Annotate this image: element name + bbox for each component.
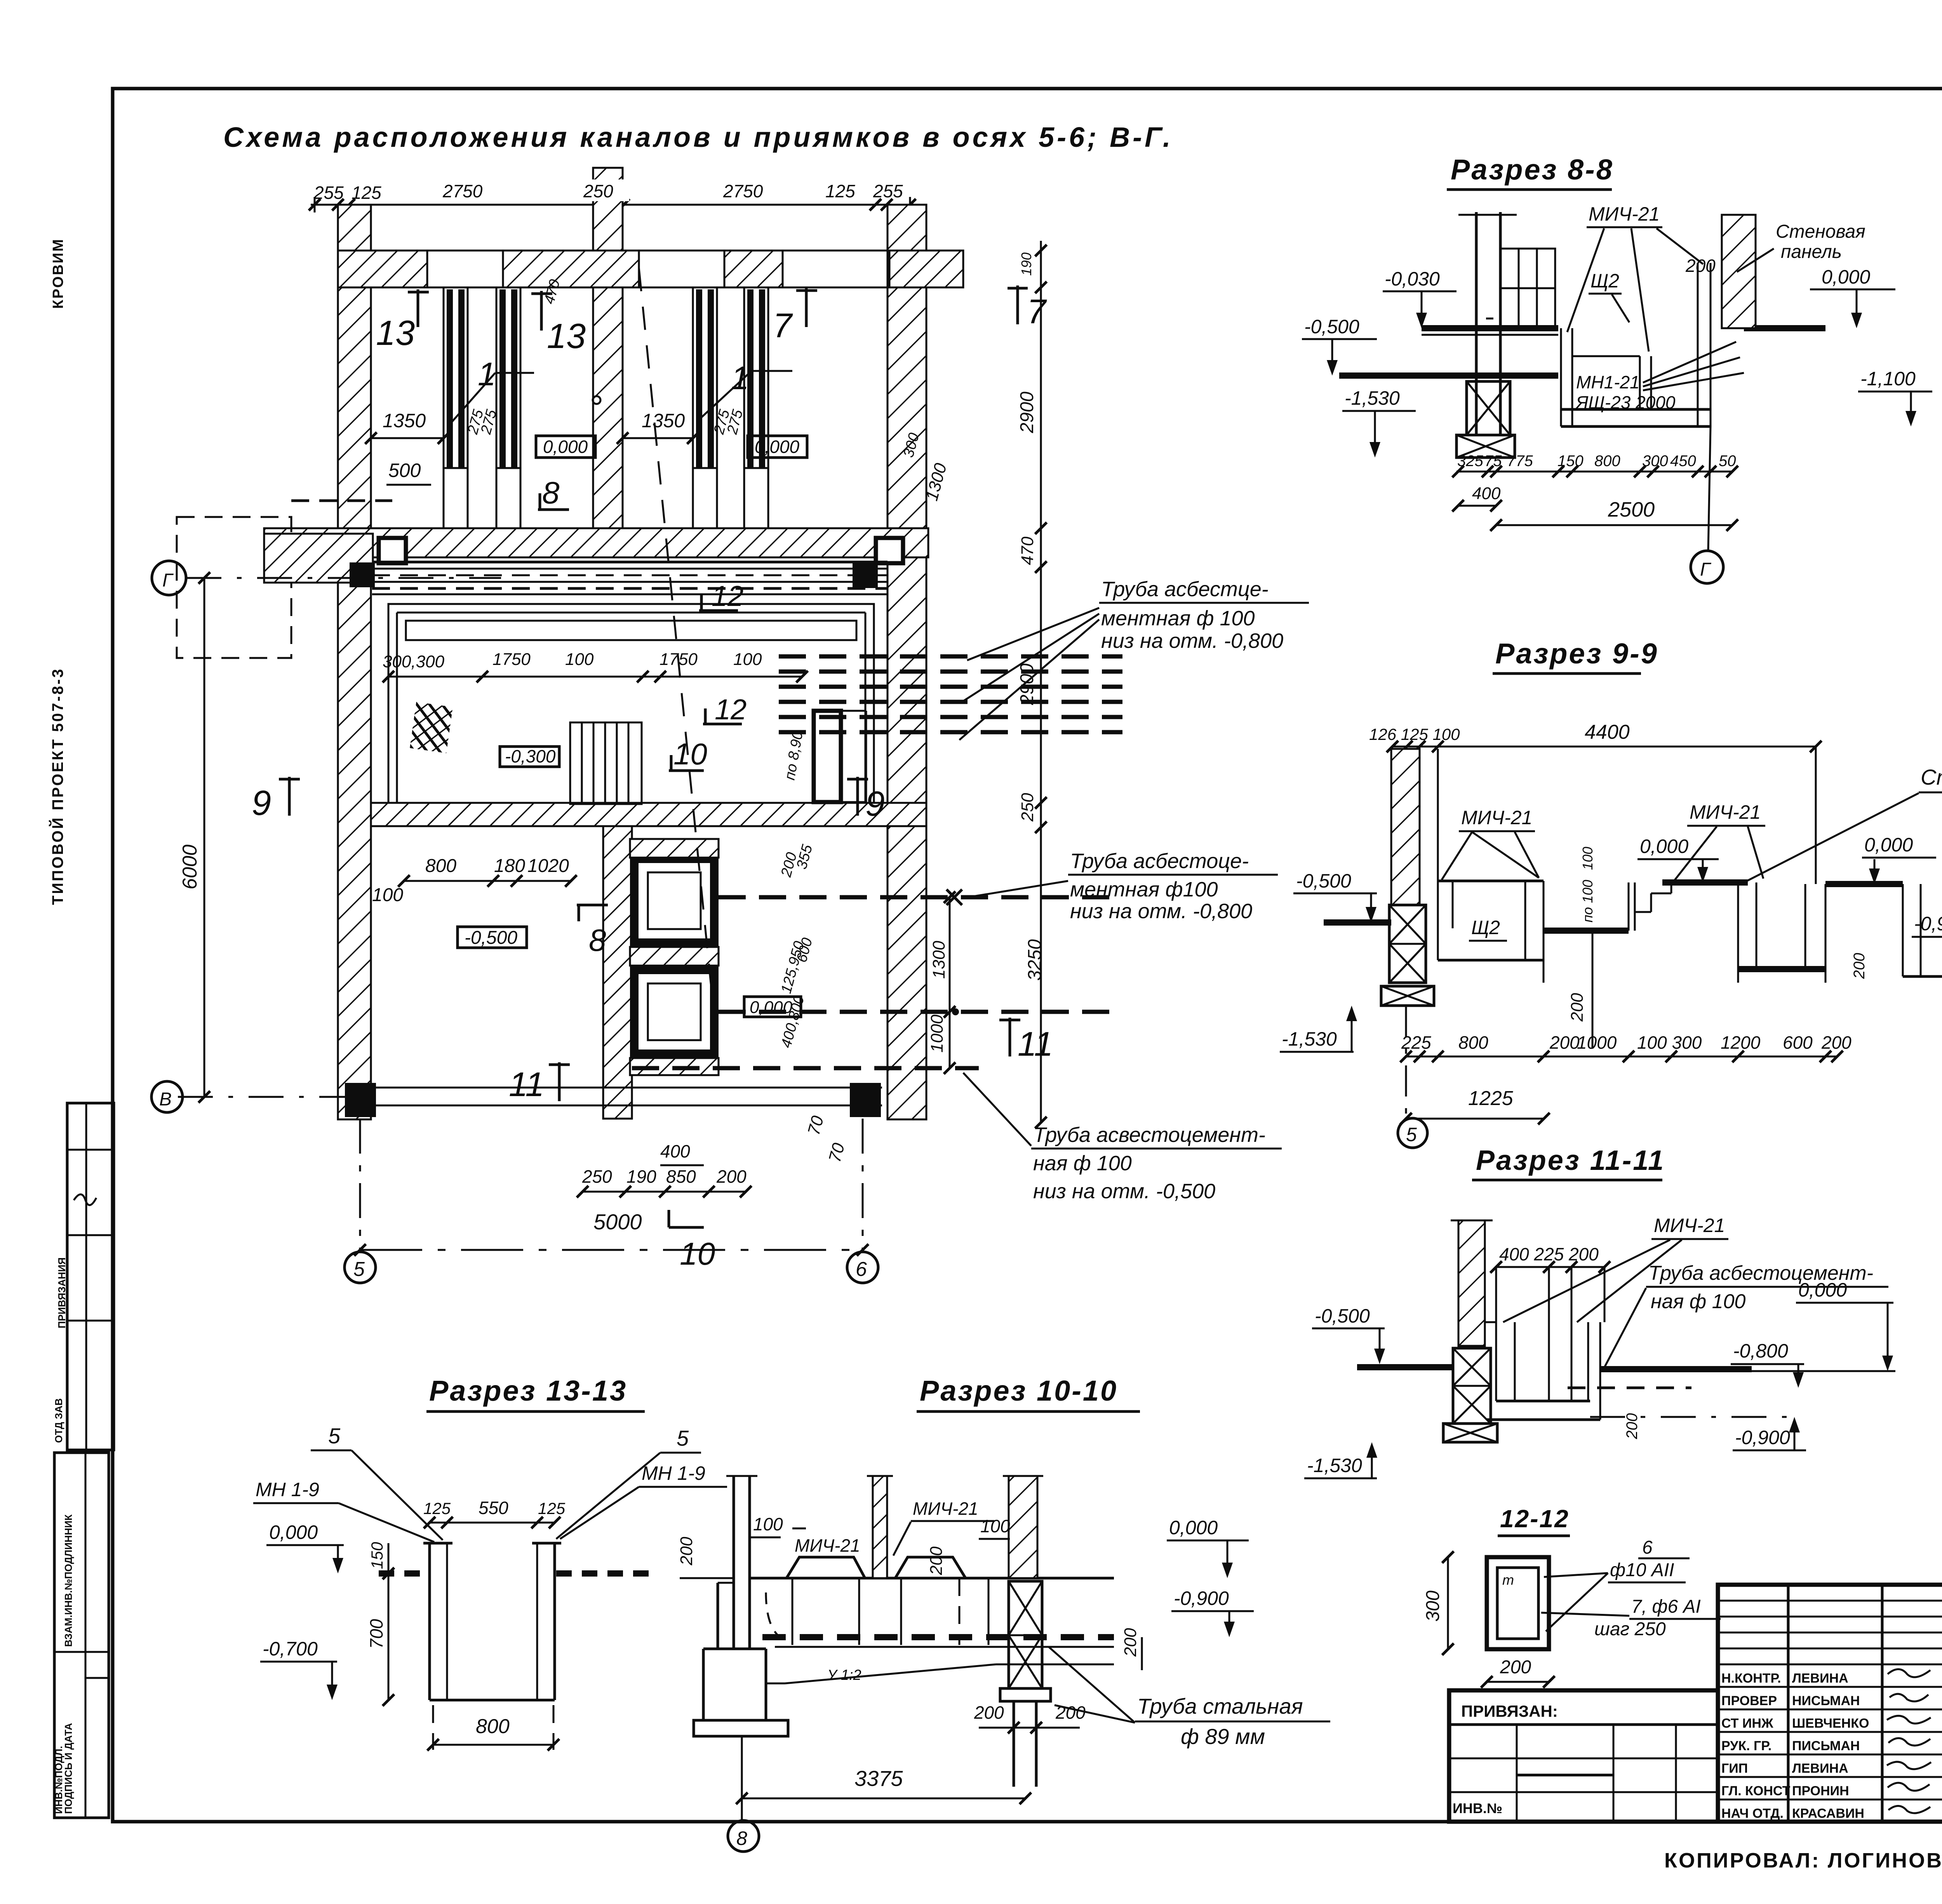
plan: small rotated dims near pits <box>778 842 816 1049</box>
plan: dim 1350 right <box>617 410 699 444</box>
section 12-12: dim 200 <box>1481 1657 1555 1688</box>
plan: section mark 13 right <box>531 291 586 356</box>
section 10-10: channel cover plate 1 <box>787 1557 865 1578</box>
plan: bottom dim row 250/190/850/200 <box>582 1166 747 1187</box>
plan: level box -0.500 <box>458 927 527 948</box>
svg-text:400: 400 <box>660 1141 690 1161</box>
plan: section mark 7 outer <box>1008 285 1047 331</box>
svg-text:1300: 1300 <box>929 941 948 979</box>
plan: dim 1350 left <box>365 410 449 444</box>
plan: pipe label 1 <box>959 578 1309 740</box>
plan: central lower wall <box>603 826 632 1119</box>
section 8-8: pit walls <box>1561 263 1711 426</box>
section 8-8: floor slab right <box>1744 325 1825 331</box>
svg-text:Схема расположения каналов и п: Схема расположения каналов и приямков в … <box>223 122 1173 153</box>
svg-text:-1,530: -1,530 <box>1282 1028 1337 1050</box>
svg-text:0,000: 0,000 <box>1640 835 1688 857</box>
svg-text:МИЧ-21: МИЧ-21 <box>1654 1215 1725 1236</box>
left margin project vertical caption <box>49 668 66 905</box>
svg-text:800: 800 <box>1594 453 1620 470</box>
left margin upper table <box>53 1103 114 1450</box>
svg-text:150: 150 <box>1557 453 1584 470</box>
plan: rotated dim 90/8,90 <box>782 730 806 781</box>
svg-text:МИЧ-21: МИЧ-21 <box>1589 203 1660 225</box>
svg-text:7, ф6 АI: 7, ф6 АI <box>1631 1596 1701 1617</box>
svg-text:190: 190 <box>1018 252 1034 276</box>
svg-text:Разрез 10-10: Разрез 10-10 <box>920 1375 1118 1407</box>
section 11-11: level -0.900 <box>1733 1417 1806 1450</box>
section 8-8: level -1.530 <box>1342 387 1416 458</box>
section 10-10: dim 100 left <box>750 1514 783 1537</box>
section 13-13: label MN1-9 left <box>253 1479 434 1542</box>
svg-text:12-12: 12-12 <box>1500 1505 1570 1533</box>
plan: section mark 9 left <box>252 777 300 823</box>
svg-text:ТИПОВОЙ ПРОЕКТ 507-8-3: ТИПОВОЙ ПРОЕКТ 507-8-3 <box>49 668 66 905</box>
svg-text:ф10 АII: ф10 АII <box>1610 1560 1674 1580</box>
svg-text:-0,500: -0,500 <box>1296 870 1351 892</box>
plan: axis circle 6 <box>847 1119 878 1283</box>
left margin upper vertical caption <box>50 238 66 309</box>
section 13-13: floor dashes right <box>556 1570 653 1577</box>
plan: dim 250 label backing <box>581 179 629 201</box>
section 9-9: dim 1225 <box>1400 1087 1550 1124</box>
svg-text:МН 1-9: МН 1-9 <box>642 1462 705 1484</box>
section 10-10: dims 200 200 <box>974 1702 1086 1733</box>
section 10-10: steel pipe label <box>1049 1647 1330 1749</box>
svg-text:10: 10 <box>680 1236 715 1272</box>
svg-text:8: 8 <box>589 923 606 957</box>
svg-text:ная ф 100: ная ф 100 <box>1651 1290 1745 1313</box>
section 11-11: level -1.530 <box>1304 1442 1377 1478</box>
plan: section mark 12 lower <box>703 693 747 726</box>
svg-text:-1,530: -1,530 <box>1307 1455 1362 1476</box>
svg-text:125: 125 <box>423 1499 451 1518</box>
svg-text:низ на отм. -0,500: низ на отм. -0,500 <box>1033 1180 1215 1203</box>
svg-text:Г: Г <box>162 570 174 591</box>
svg-text:6000: 6000 <box>179 844 201 889</box>
section 10-10: dim 3375 <box>736 1736 1031 1821</box>
plan: central wall column <box>593 168 623 528</box>
plan: top wall band outline <box>338 251 963 287</box>
svg-text:Труба асвестоцемент-: Труба асвестоцемент- <box>1033 1123 1265 1147</box>
svg-text:ИНВ.№ПОДЛ.: ИНВ.№ПОДЛ. <box>53 1746 64 1814</box>
plan: section mark 8 lower <box>577 905 608 957</box>
svg-text:9: 9 <box>865 785 885 823</box>
plan: G axis circle <box>152 561 501 595</box>
section 8-8: label MICh-21 <box>1567 203 1703 352</box>
svg-text:1000: 1000 <box>1577 1032 1617 1053</box>
section 8-8: dim 400 <box>1452 484 1502 512</box>
section 9-9: bottom dim chain <box>1400 1032 1852 1062</box>
plan: bottom wall lines <box>347 1088 882 1105</box>
svg-text:Разрез 9-9: Разрез 9-9 <box>1495 637 1658 670</box>
svg-text:Разрез 8-8: Разрез 8-8 <box>1451 153 1614 186</box>
plan: bottom dim line <box>577 1186 752 1197</box>
plan: level box 0.000 lower <box>744 997 801 1017</box>
section 13-13: label 5 right <box>556 1426 701 1539</box>
section 8-8: level -0.030 <box>1383 268 1456 328</box>
plan: small black column right <box>853 563 878 588</box>
svg-text:7: 7 <box>1027 292 1047 331</box>
plan: label 1 right with leader <box>699 360 792 419</box>
svg-text:125: 125 <box>825 181 855 201</box>
svg-text:-0,900: -0,900 <box>1174 1587 1229 1609</box>
plan: channel group 3 <box>693 287 717 528</box>
section 11-11: wall column <box>1451 1220 1493 1346</box>
plan: mid dim line <box>383 671 808 682</box>
svg-text:1350: 1350 <box>642 410 685 432</box>
plan: section mark 8 upper <box>538 475 569 510</box>
svg-text:Разрез 11-11: Разрез 11-11 <box>1476 1145 1665 1176</box>
section 10-10: label MICh-21 mid <box>792 1528 860 1556</box>
section 11-11: dashed pipe <box>1568 1387 1691 1389</box>
plan: channel 12 horizontal bundle <box>372 562 887 594</box>
section 9-9: axis circle 5 <box>1398 1006 1427 1148</box>
plan: axis circle 5 <box>345 1119 376 1283</box>
plan: dims 275 left pair <box>465 407 500 436</box>
section 9-9: level 0.000 right <box>1862 834 1936 884</box>
svg-text:МН 1-9: МН 1-9 <box>256 1479 319 1500</box>
svg-text:800: 800 <box>1458 1032 1488 1053</box>
svg-text:ВЗАМ.ИНВ.№ПОДЛИННИК: ВЗАМ.ИНВ.№ПОДЛИННИК <box>63 1514 74 1647</box>
section 11-11: pit top dims 400 225 200 <box>1490 1244 1610 1322</box>
svg-text:100: 100 <box>733 650 762 669</box>
section 13-13: label 5 left <box>311 1424 443 1540</box>
section 8-8: level -1.100 <box>1858 368 1932 426</box>
svg-text:КРАСАВИН: КРАСАВИН <box>1792 1806 1864 1821</box>
svg-text:125: 125 <box>352 183 381 203</box>
svg-text:ШЕВЧЕНКО: ШЕВЧЕНКО <box>1792 1716 1869 1731</box>
plan: section mark 11 left <box>509 1062 570 1103</box>
section 11-11: pier with X <box>1453 1348 1491 1424</box>
svg-text:100: 100 <box>372 885 403 905</box>
svg-text:50: 50 <box>1719 453 1736 470</box>
title block: privyazan box <box>1449 1690 1718 1822</box>
section 8-8: left column <box>1458 212 1517 435</box>
svg-text:200: 200 <box>1685 256 1716 276</box>
plan: inner vertical dim 1300/1000 <box>927 891 955 1074</box>
section 10-10: trench floor <box>766 1592 1114 1647</box>
svg-text:400 225 200: 400 225 200 <box>1499 1244 1599 1264</box>
svg-text:2500: 2500 <box>1608 498 1655 521</box>
svg-text:ЛЕВИНА: ЛЕВИНА <box>1792 1761 1848 1776</box>
svg-text:Труба асбестоцемент-: Труба асбестоцемент- <box>1648 1262 1873 1284</box>
section 10-10: floor line <box>750 1577 1114 1580</box>
main title text <box>223 122 1173 153</box>
section 10-10: channel cover plate 2 <box>895 1557 966 1578</box>
svg-text:МИЧ-21: МИЧ-21 <box>913 1498 978 1519</box>
section 9-9: steps <box>1629 882 1677 931</box>
svg-text:0,000: 0,000 <box>543 437 588 457</box>
plan: channel group 1 <box>444 287 468 528</box>
svg-text:НИСЬМАН: НИСЬМАН <box>1792 1693 1860 1708</box>
svg-text:-1,100: -1,100 <box>1860 368 1916 390</box>
svg-text:126 125 100: 126 125 100 <box>1369 725 1460 743</box>
plan: top dimension line <box>309 197 916 212</box>
svg-text:700: 700 <box>366 1619 386 1649</box>
plan: pit separation hatch <box>630 947 719 966</box>
section 9-9: dim 200 below trench <box>1568 931 1592 1049</box>
title block: signatures <box>1887 1669 1931 1813</box>
svg-text:470: 470 <box>1018 536 1037 565</box>
plan: section mark 10 mid <box>669 737 707 771</box>
plan: section mark 9 right <box>847 777 885 823</box>
svg-text:300: 300 <box>1642 453 1668 470</box>
section 8-8: dim 2500 <box>1490 498 1738 531</box>
section 10-10: foundation steps <box>694 1583 788 1736</box>
svg-text:ПРИВЯЗАН:: ПРИВЯЗАН: <box>1461 1702 1558 1720</box>
svg-text:У 1:2: У 1:2 <box>827 1667 861 1683</box>
section 9-9: platform right <box>1825 881 1903 887</box>
section 9-9: heading <box>1493 637 1658 674</box>
svg-text:-0,300: -0,300 <box>505 746 556 766</box>
section 11-11: pipe solid <box>1600 1366 1752 1372</box>
svg-text:т: т <box>1502 1572 1514 1588</box>
section 13-13: floor dashes left <box>379 1570 427 1577</box>
left margin lower stamp table <box>53 1453 109 1818</box>
plan: 6000 vertical dim <box>179 572 210 1103</box>
plan: upper pipe bundle dashed <box>779 656 1122 732</box>
svg-text:100: 100 <box>980 1516 1010 1536</box>
section 13-13: dim 150 rotated <box>368 1542 388 1573</box>
svg-text:ПРОВЕР: ПРОВЕР <box>1721 1693 1777 1708</box>
svg-text:12: 12 <box>715 693 747 726</box>
section 13-13: heading <box>426 1375 645 1411</box>
svg-text:300,300: 300,300 <box>383 652 445 671</box>
section 11-11: level line 0.000 <box>1752 1279 1895 1371</box>
section 8-8: label wall panel <box>1737 221 1865 272</box>
svg-text:МИЧ-21: МИЧ-21 <box>795 1535 860 1556</box>
svg-text:1000: 1000 <box>927 1015 947 1053</box>
svg-text:1750: 1750 <box>492 650 531 669</box>
plan: lower dashed pipe 1 <box>719 889 1122 905</box>
plan: pit A <box>634 859 714 943</box>
svg-text:6: 6 <box>1642 1537 1653 1558</box>
svg-text:-0,030: -0,030 <box>1385 268 1440 290</box>
plan: dim 500 <box>386 459 431 485</box>
section 9-9: dim 4400 right leg <box>1815 747 1817 884</box>
svg-text:ментная ф 100: ментная ф 100 <box>1101 607 1255 630</box>
plan: label 1 left with leader <box>451 356 534 423</box>
svg-text:ГИП: ГИП <box>1721 1761 1748 1776</box>
section 12-12: box section <box>1487 1557 1549 1649</box>
plan: channel group 2 <box>496 287 520 528</box>
plan: mid dim row 1750/100/1750 <box>383 650 762 671</box>
svg-text:ЛЕВИНА: ЛЕВИНА <box>1792 1671 1848 1686</box>
svg-text:450: 450 <box>1670 453 1696 470</box>
svg-text:200: 200 <box>677 1537 696 1566</box>
svg-text:по 100: по 100 <box>1580 880 1596 922</box>
section 9-9: level 0.000 left <box>1637 835 1719 882</box>
svg-text:100: 100 <box>753 1514 783 1534</box>
svg-text:ПРОНИН: ПРОНИН <box>1792 1784 1849 1798</box>
section 8-8: heading <box>1447 153 1614 190</box>
svg-text:11: 11 <box>1018 1025 1053 1063</box>
section 10-10: heading <box>917 1375 1140 1411</box>
section 10-10: dim 200 rotated left <box>677 1537 734 1578</box>
section 8-8: footing <box>1456 435 1515 458</box>
footer: copier name <box>1664 1849 1942 1872</box>
section 9-9: floor slab left <box>1324 919 1391 926</box>
svg-text:низ на отм. -0,800: низ на отм. -0,800 <box>1070 900 1252 923</box>
section 9-9: right pit <box>1903 884 1942 976</box>
section 9-9: footing <box>1381 986 1434 1006</box>
svg-text:-0,900: -0,900 <box>1735 1427 1790 1448</box>
svg-text:600: 600 <box>1783 1032 1813 1053</box>
svg-text:190: 190 <box>626 1166 656 1187</box>
title block: staff table <box>1718 1585 1942 1822</box>
svg-text:200: 200 <box>1568 993 1587 1022</box>
section 10-10: middle wall <box>867 1476 893 1578</box>
plan: right middle pit <box>814 711 866 802</box>
svg-text:СТ ИНЖ: СТ ИНЖ <box>1721 1716 1773 1731</box>
svg-text:Труба асбестце-: Труба асбестце- <box>1101 578 1269 601</box>
svg-text:4400: 4400 <box>1585 721 1630 743</box>
svg-text:ПРИВЯЗАНИЯ: ПРИВЯЗАНИЯ <box>56 1257 68 1328</box>
plan: bottom-left corner column <box>345 1083 376 1117</box>
section 11-11: heading <box>1472 1145 1665 1180</box>
svg-text:-0,800: -0,800 <box>1733 1340 1788 1362</box>
svg-text:200: 200 <box>1851 953 1868 979</box>
svg-text:250: 250 <box>583 181 613 201</box>
svg-text:550: 550 <box>479 1498 508 1518</box>
section 9-9: platform slab <box>1662 879 1748 886</box>
plan: level box 0.000 right <box>748 436 807 458</box>
section 10-10: axis circle 8 <box>728 1820 759 1852</box>
plan: stairs <box>570 722 642 804</box>
section 9-9: top dims <box>1369 721 1822 752</box>
section 11-11: level -0.500 <box>1312 1305 1385 1364</box>
section 8-8: dim 200 <box>1685 256 1716 276</box>
svg-text:100: 100 <box>1580 847 1596 870</box>
section 13-13: dim 700 rotated <box>366 1568 394 1706</box>
svg-text:0,000: 0,000 <box>1169 1517 1218 1539</box>
section 9-9: label MICh-21 left <box>1442 807 1539 880</box>
section 13-13: label MN1-9 right <box>560 1462 727 1539</box>
plan: pipe label 2 <box>963 849 1278 923</box>
svg-text:2750: 2750 <box>442 181 483 201</box>
svg-text:низ на отм. -0,800: низ на отм. -0,800 <box>1101 629 1283 653</box>
section 13-13: dim 800 <box>427 1705 559 1751</box>
plan: G-wall right junction column <box>876 538 903 563</box>
section 8-8: axis circle G <box>1691 426 1723 583</box>
section 10-10: label MICh-21 right <box>893 1498 994 1556</box>
plan: lower dim row 800/180/1020 <box>425 856 569 876</box>
section 8-8: level 0.000 <box>1810 266 1895 328</box>
svg-text:400: 400 <box>1472 484 1501 503</box>
svg-text:250: 250 <box>1018 793 1037 822</box>
plan: pit B <box>634 970 714 1054</box>
section 10-10: X pier right <box>1000 1581 1051 1787</box>
section 13-13: pit walls <box>423 1543 561 1700</box>
section 11-11: floor slab left <box>1357 1364 1453 1370</box>
svg-text:Труба асбестоце-: Труба асбестоце- <box>1070 849 1249 873</box>
svg-text:панель: панель <box>1781 242 1842 262</box>
svg-text:2750: 2750 <box>723 181 763 201</box>
plan: G-axis wall band <box>264 528 928 557</box>
section 11-11: footing <box>1443 1424 1497 1442</box>
plan: section mark 7 inner <box>773 288 817 345</box>
section 10-10: slope line <box>766 1664 1114 1683</box>
section 9-9: wall at axis 5 <box>1391 749 1438 905</box>
svg-text:125: 125 <box>538 1499 566 1518</box>
svg-text:9: 9 <box>252 784 271 823</box>
svg-text:2900: 2900 <box>1017 663 1037 705</box>
svg-text:1225: 1225 <box>1468 1087 1514 1110</box>
svg-text:8: 8 <box>542 475 560 510</box>
svg-text:-0,700: -0,700 <box>263 1638 318 1660</box>
svg-text:0,000: 0,000 <box>1822 266 1870 288</box>
section 8-8: pier with X brace <box>1467 381 1510 435</box>
plan: pipe label 3 <box>963 1073 1282 1203</box>
svg-text:1350: 1350 <box>383 410 426 432</box>
svg-text:180: 180 <box>494 856 525 876</box>
svg-text:5: 5 <box>328 1424 341 1448</box>
section 8-8: label Sch2 <box>1589 270 1629 322</box>
svg-text:800: 800 <box>425 856 456 876</box>
plan: axis 5-6 dim 5000 <box>354 1210 868 1256</box>
svg-text:5000: 5000 <box>593 1210 642 1234</box>
svg-text:МН1-21: МН1-21 <box>1576 372 1640 392</box>
section 9-9: label Sch2 <box>1453 881 1507 941</box>
section 9-9: step dims rotated <box>1580 847 1596 922</box>
svg-text:Труба стальная: Труба стальная <box>1137 1694 1303 1718</box>
section 9-9: pit Sch2 <box>1438 881 1544 983</box>
svg-text:ИНВ.№: ИНВ.№ <box>1453 1800 1502 1816</box>
plan: lower dim line <box>372 875 577 905</box>
plan: middle room boundary <box>388 604 874 803</box>
svg-text:2900: 2900 <box>1017 392 1037 433</box>
svg-text:-0,500: -0,500 <box>465 928 517 948</box>
plan: rotated dim 300 top-right <box>900 431 922 459</box>
svg-text:Разрез 13-13: Разрез 13-13 <box>429 1375 627 1407</box>
plan: B axis circle <box>151 1081 373 1112</box>
svg-text:500: 500 <box>388 459 421 481</box>
svg-text:РУК. ГР.: РУК. ГР. <box>1721 1739 1771 1753</box>
plan: section mark 10 bottom <box>669 1210 715 1272</box>
svg-text:200: 200 <box>1549 1032 1580 1053</box>
svg-text:200: 200 <box>716 1166 747 1187</box>
svg-text:850: 850 <box>666 1166 696 1187</box>
svg-text:8: 8 <box>736 1827 747 1849</box>
plan: top dimension labels <box>313 181 903 203</box>
svg-text:МИЧ-21: МИЧ-21 <box>1690 801 1761 823</box>
svg-text:300: 300 <box>1423 1591 1443 1622</box>
svg-text:ЯЩ-23 2000: ЯЩ-23 2000 <box>1575 392 1676 412</box>
plan: rotated dims 70 <box>804 1114 848 1164</box>
svg-text:ментная ф100: ментная ф100 <box>1070 878 1218 901</box>
svg-text:800: 800 <box>476 1715 510 1738</box>
section 11-11: level -0.800 <box>1731 1340 1804 1388</box>
plan: rotated dim 1300 top-right <box>922 461 950 503</box>
plan: section mark 12 upper <box>699 580 743 612</box>
svg-text:200: 200 <box>1624 1413 1641 1439</box>
plan: dim 470 rotated <box>541 278 563 306</box>
svg-text:ная ф 100: ная ф 100 <box>1033 1152 1132 1175</box>
svg-text:5: 5 <box>677 1426 689 1450</box>
svg-text:1200: 1200 <box>1721 1032 1761 1053</box>
section 9-9: pier with X <box>1389 905 1426 983</box>
svg-text:100: 100 <box>565 650 594 669</box>
svg-text:ГЛ. КОНСТ: ГЛ. КОНСТ <box>1721 1784 1791 1798</box>
svg-text:0,000: 0,000 <box>750 998 793 1017</box>
svg-text:1020: 1020 <box>527 856 569 876</box>
section 11-11: pipe label <box>1604 1262 1888 1368</box>
section 8-8: smudged labels MN1-21 <box>1575 342 1744 412</box>
svg-text:Г: Г <box>1700 559 1712 580</box>
section 9-9: level -0.900 <box>1912 913 1942 976</box>
svg-text:НАЧ ОТД.: НАЧ ОТД. <box>1721 1806 1784 1821</box>
